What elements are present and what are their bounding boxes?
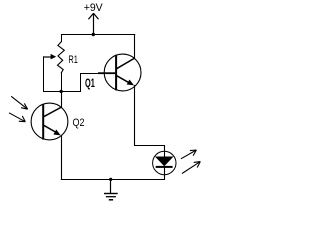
junction dot at ground xyxy=(109,178,112,181)
wire horizontal at y91 xyxy=(43,91,81,93)
wire R1 bottom lead xyxy=(61,73,63,92)
wire Q2 collector vertical xyxy=(61,91,63,108)
light arrow out of LED (upper) xyxy=(181,150,197,159)
wire top rail xyxy=(61,34,135,36)
ground xyxy=(104,179,118,200)
light arrow out of LED (lower) xyxy=(182,162,200,174)
svg-text:+9V: +9V xyxy=(84,2,103,14)
wire vertical step x80 xyxy=(80,73,82,92)
transistor Q1 xyxy=(98,54,141,91)
R1 wiper arrow xyxy=(43,56,51,58)
wire bottom rail xyxy=(61,179,165,181)
wire Q1 base feed xyxy=(80,73,99,75)
svg-text:R1: R1 xyxy=(68,54,78,66)
wire Q2 emitter vertical xyxy=(61,135,63,180)
svg-text:Q1: Q1 xyxy=(85,78,95,90)
wire horizontal to LED xyxy=(134,145,165,147)
wire Q1 collector vertical xyxy=(134,34,136,59)
junction dot R1/Q2 xyxy=(60,90,63,93)
phototransistor Q2 xyxy=(31,103,68,140)
wire Q1 emitter vertical down to LED row xyxy=(134,85,136,146)
wire wiper return vertical xyxy=(43,56,45,92)
junction dot at +9V xyxy=(92,33,95,36)
LED D1 xyxy=(153,145,176,180)
svg-text:Q2: Q2 xyxy=(73,117,85,129)
light arrow into Q2 (upper) xyxy=(11,96,27,109)
resistor R1 (variable) zigzag xyxy=(58,42,65,74)
+9V supply arrow xyxy=(88,13,98,34)
light arrow into Q2 (lower) xyxy=(9,113,25,122)
wire R1 top lead xyxy=(61,34,63,42)
